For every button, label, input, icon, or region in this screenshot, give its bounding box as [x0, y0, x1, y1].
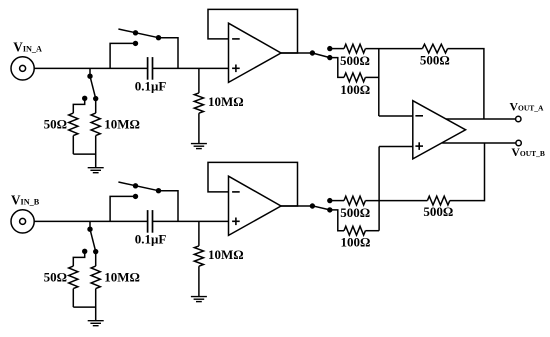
svg-text:50Ω: 50Ω — [44, 116, 67, 131]
svg-text:VIN_B: VIN_B — [11, 193, 40, 208]
svg-text:10MΩ: 10MΩ — [104, 116, 140, 131]
svg-text:10MΩ: 10MΩ — [104, 269, 140, 284]
svg-text:100Ω: 100Ω — [340, 235, 370, 250]
svg-text:0.1μF: 0.1μF — [135, 79, 167, 94]
svg-text:100Ω: 100Ω — [340, 82, 370, 97]
svg-text:0.1μF: 0.1μF — [135, 232, 167, 247]
svg-text:500Ω: 500Ω — [423, 204, 453, 219]
svg-text:10MΩ: 10MΩ — [208, 94, 244, 109]
svg-text:VIN_A: VIN_A — [13, 40, 42, 55]
svg-text:50Ω: 50Ω — [44, 269, 67, 284]
svg-text:500Ω: 500Ω — [340, 205, 370, 220]
svg-text:VOUT_B: VOUT_B — [511, 145, 545, 159]
svg-text:VOUT_A: VOUT_A — [510, 100, 545, 114]
svg-text:500Ω: 500Ω — [420, 52, 450, 67]
svg-text:500Ω: 500Ω — [340, 53, 370, 68]
svg-text:10MΩ: 10MΩ — [208, 247, 244, 262]
